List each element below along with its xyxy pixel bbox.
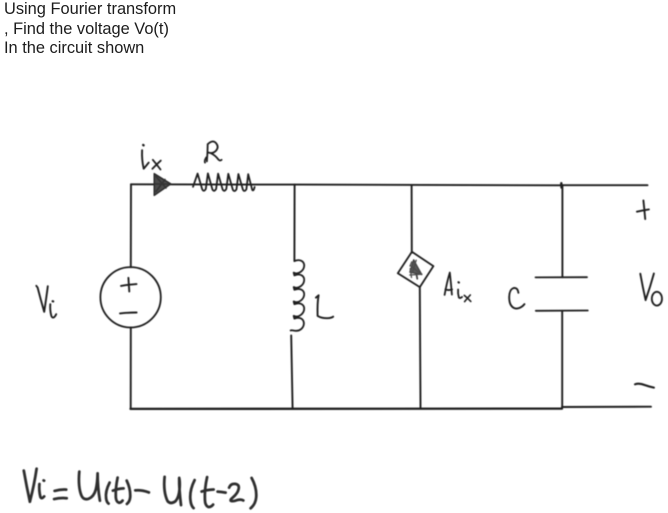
inductor L — [291, 260, 305, 331]
wire below source — [130, 328, 132, 409]
wire left vertical — [130, 184, 132, 267]
current arrow ix — [154, 174, 171, 196]
wire inductor branch top — [293, 185, 295, 261]
wire bottom — [131, 407, 563, 410]
wire top — [131, 184, 648, 185]
junction node top — [560, 183, 563, 187]
label C — [509, 288, 524, 309]
dependent source Aix — [398, 252, 434, 287]
resistor R — [193, 173, 255, 191]
capacitor C — [536, 277, 588, 311]
wire capacitor branch top — [561, 185, 563, 277]
label minus output — [635, 384, 654, 388]
label Aix — [445, 273, 453, 295]
equation Vi = U(t) - U(t-2) — [24, 469, 256, 509]
wire dependent source top — [411, 185, 413, 252]
wire inductor branch bottom — [291, 336, 292, 409]
label ix — [142, 150, 149, 169]
label plus output — [637, 200, 649, 219]
label R — [205, 141, 222, 162]
voltage source Vi — [100, 267, 160, 327]
label Vi — [36, 286, 48, 312]
wire capacitor branch bottom — [561, 311, 563, 408]
wire dependent source bottom — [419, 287, 422, 408]
label L — [316, 295, 333, 318]
label Vo — [640, 274, 654, 301]
